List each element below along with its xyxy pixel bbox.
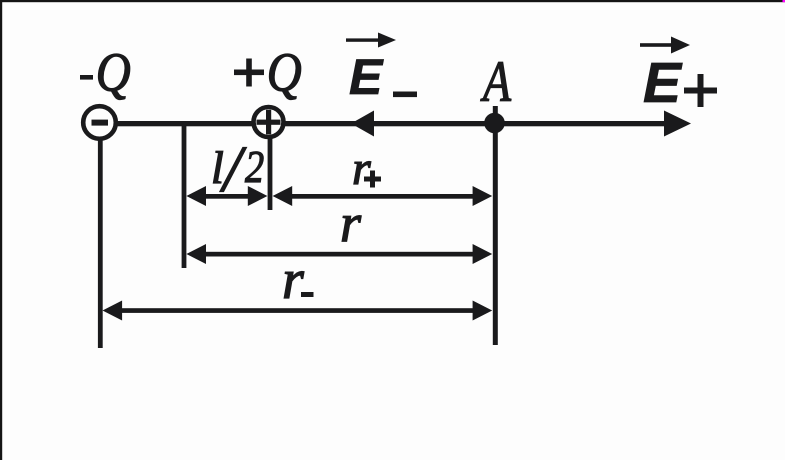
label l/2 [211, 133, 264, 206]
border top edge [0, 0, 785, 2]
border left edge [0, 0, 2, 460]
label -Q [80, 43, 131, 104]
svg-text:l: l [211, 142, 224, 193]
arrowhead E- direction (on axis, pointing left) [351, 111, 374, 137]
label r- [282, 249, 314, 311]
label A at node [480, 50, 512, 114]
svg-text:Q: Q [96, 43, 131, 104]
svg-text:r: r [352, 142, 371, 195]
extension line below +Q [268, 137, 273, 210]
label +Q [234, 43, 302, 104]
dimension r- (-Q to A) [103, 301, 493, 321]
vector arrow over E+ [640, 37, 690, 54]
charge +Q circle with plus [254, 107, 284, 137]
extension line below dipole midpoint [182, 123, 187, 268]
svg-text:r: r [282, 249, 304, 311]
wire main axis line [116, 121, 668, 126]
extension line below node A [493, 106, 498, 345]
dimension r+ (+Q to A) [273, 186, 493, 206]
svg-text:E: E [643, 51, 683, 115]
vector arrow over E- [346, 33, 396, 48]
svg-text:2: 2 [245, 143, 264, 193]
node A dot on axis [484, 113, 505, 134]
label E- (field of negative charge) [349, 49, 417, 105]
svg-text:Q: Q [267, 43, 302, 104]
label r+ [352, 142, 381, 195]
svg-text:A: A [480, 50, 512, 114]
dimension l/2 (midpoint to +Q) [186, 186, 267, 206]
extension line below -Q [98, 139, 103, 348]
magenta scan artifact top-right corner [783, 0, 785, 2]
svg-text:E: E [349, 49, 384, 105]
dimension r (midpoint to A) [186, 244, 492, 264]
arrowhead E+ direction (right end of axis) [664, 111, 691, 137]
svg-text:r: r [340, 193, 362, 253]
label E+ (field of positive charge) [643, 51, 717, 115]
charge -Q circle with minus [83, 106, 116, 139]
